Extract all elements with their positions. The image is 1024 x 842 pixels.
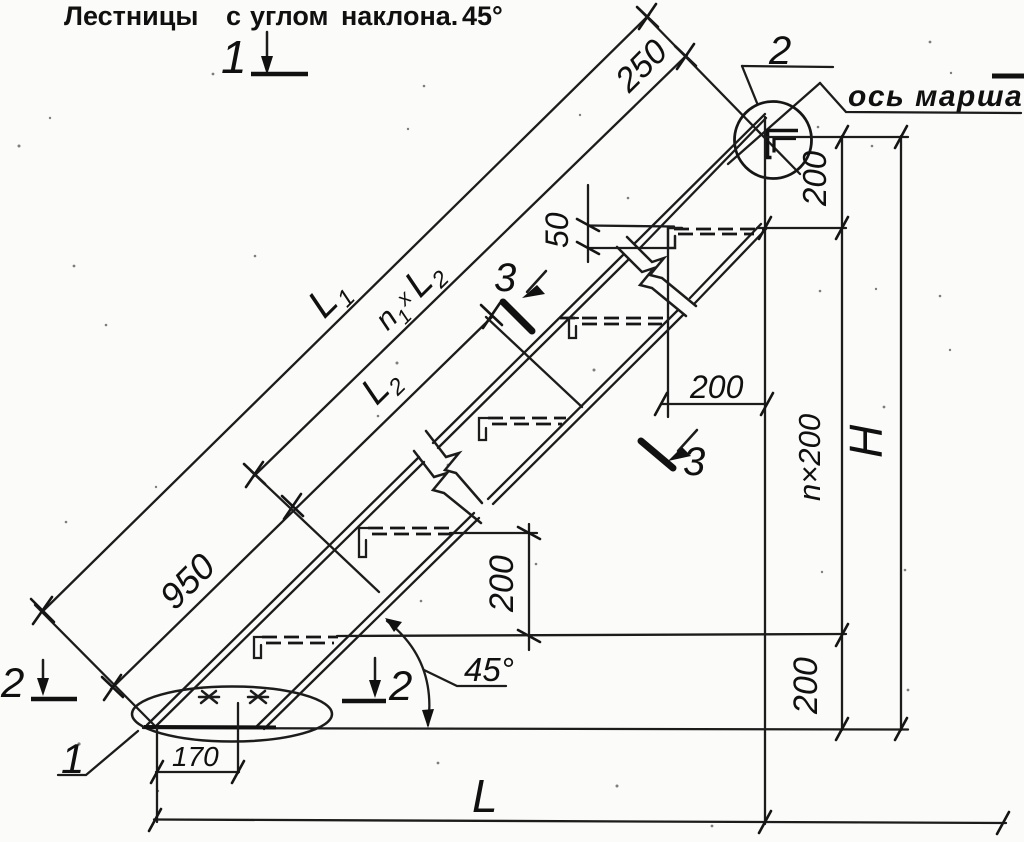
label n x 200 (rotated)	[792, 414, 827, 501]
section marker 3 (lower)	[641, 430, 705, 484]
svg-text:2: 2	[388, 662, 412, 709]
tread C	[479, 418, 566, 440]
svg-text:45°: 45°	[464, 651, 514, 688]
label 250	[607, 32, 675, 100]
label H (rotated)	[840, 424, 892, 458]
svg-text:Лестницы: Лестницы	[64, 1, 198, 31]
45 degree arc with arrows	[387, 621, 429, 725]
tick L1 bottom	[31, 597, 54, 624]
extension line E_c (top of L2, crosses stair)	[486, 317, 582, 407]
break symbol 1 (lower)	[426, 431, 482, 503]
tread E (below top)	[668, 228, 763, 248]
tread D	[560, 318, 665, 338]
leader ось марша	[820, 83, 1021, 113]
horizontal line at step E level	[757, 227, 846, 229]
vertical line V1 from top step down to bottom dim	[764, 117, 766, 824]
svg-text:с: с	[226, 1, 241, 31]
section marker 1 (top)	[221, 31, 308, 83]
weld mark 1	[199, 691, 219, 703]
tick E at V2	[836, 217, 848, 239]
march axis line	[728, 83, 820, 164]
top horizontal dim line	[765, 136, 908, 138]
svg-text:H: H	[840, 424, 892, 458]
bottom L dimension line	[149, 770, 1009, 834]
vertical line V2 (n x 200)	[841, 136, 843, 730]
long horizontal line at first step level	[337, 634, 846, 636]
tick E at V1	[759, 217, 771, 239]
title text	[64, 1, 503, 31]
label 200 (top right, rotated)	[796, 150, 833, 207]
svg-text:углом: углом	[250, 1, 329, 31]
tick chain bottom	[102, 675, 123, 700]
svg-text:2: 2	[0, 659, 24, 706]
170 dimension	[151, 703, 244, 822]
dimension line L1	[42, 15, 649, 612]
chained dimension line 950 / L2	[111, 317, 492, 689]
svg-text:200: 200	[483, 555, 521, 613]
dimension line n1xL2	[254, 55, 687, 476]
svg-text:n×200: n×200	[792, 414, 827, 501]
section marker 2 (left)	[0, 659, 77, 706]
vertical line V3 (H)	[900, 136, 902, 730]
label 200 (bottom right upper, rotated)	[787, 657, 825, 715]
label L2	[353, 358, 410, 415]
floor line	[143, 728, 908, 730]
weld mark 2	[248, 691, 268, 703]
horizontal 200 dim (mid right)	[655, 369, 773, 415]
svg-text:45°: 45°	[462, 1, 503, 31]
lower stringer (double line, with two breaks)	[257, 224, 766, 729]
tick N top	[675, 44, 696, 69]
svg-text:1: 1	[221, 31, 247, 83]
label n1 x L2	[364, 251, 454, 341]
tick N bottom	[244, 462, 265, 487]
label L1	[300, 269, 361, 330]
marker 1 (bottom left) with leader	[58, 731, 138, 782]
break symbol 2 (upper)	[627, 237, 696, 306]
tick top at V2	[836, 126, 848, 148]
50 dimension	[539, 185, 674, 262]
tread A (bottom step, dashed angle)	[254, 637, 338, 658]
svg-text:наклона.: наклона.	[341, 1, 458, 31]
detail circle (top joint)	[735, 102, 812, 179]
bold mark top right	[992, 74, 1024, 79]
callout 2 (top)	[742, 29, 833, 103]
mid 200 vertical dimension	[450, 524, 540, 650]
svg-text:3: 3	[683, 440, 705, 484]
svg-text:200: 200	[796, 150, 833, 207]
tick chain top	[481, 303, 502, 328]
svg-text:ось марша: ось марша	[848, 80, 1023, 113]
svg-text:200: 200	[689, 369, 744, 405]
extension line E_low (foot)	[35, 605, 157, 728]
tread F (top step, bold solid angle in circle)	[768, 131, 799, 158]
tick chain middle	[282, 494, 303, 519]
tick floor V3	[895, 718, 907, 740]
leader 45°	[424, 670, 506, 686]
detail ellipse around foot	[132, 687, 332, 742]
label 950	[151, 545, 222, 616]
svg-text:L: L	[472, 770, 498, 822]
tick top at V3	[895, 126, 907, 148]
svg-text:50: 50	[539, 212, 575, 248]
foot plate bold	[144, 725, 276, 730]
tread B	[359, 528, 456, 557]
tick L1 top	[637, 4, 658, 29]
upper stringer (double line, with two breaks)	[147, 114, 766, 728]
tick at V2 on 635 line	[836, 624, 848, 646]
top extension line E_top	[641, 11, 800, 174]
section marker 3 (upper)	[494, 256, 546, 331]
vertical extension from tread E down	[667, 248, 669, 417]
tick floor V2	[836, 718, 848, 740]
svg-text:170: 170	[172, 741, 219, 772]
svg-text:200: 200	[787, 657, 825, 715]
section marker 2 (middle)	[342, 658, 412, 709]
svg-text:3: 3	[494, 256, 516, 300]
extension line E_b (end of n1xL2)	[251, 471, 379, 592]
